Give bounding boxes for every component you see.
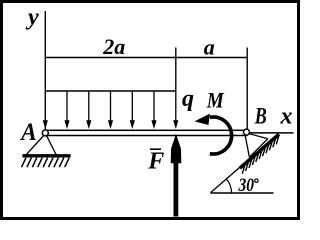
force F arrow: [171, 134, 182, 217]
pin B circle: [244, 129, 250, 135]
support A base bar: [22, 154, 70, 157]
svg-text:30: 30: [238, 175, 255, 196]
label 30 degrees: [238, 175, 258, 196]
incline surface thick segment: [240, 134, 279, 168]
dimension tick above B: [246, 48, 248, 130]
load arrow 4: [108, 91, 113, 129]
load arrow 7: [173, 91, 178, 129]
load arrow 1: [43, 120, 48, 129]
svg-text:y: y: [25, 5, 39, 31]
load arrow 2: [64, 91, 69, 129]
angle arc: [226, 179, 231, 193]
label F with overbar: [147, 148, 164, 174]
support A triangle: [25, 135, 57, 156]
load arrow 5: [130, 91, 135, 129]
svg-text:M: M: [206, 88, 225, 113]
load arrow 3: [86, 91, 91, 129]
incline surface thin segment: [211, 165, 244, 193]
dimension tick at load end: [175, 48, 177, 92]
svg-text:F: F: [147, 148, 164, 174]
support B triangle: [245, 134, 268, 158]
y-axis: [44, 11, 46, 130]
distributed load top line: [45, 90, 176, 92]
svg-text:A: A: [19, 119, 36, 146]
dimension line: [45, 57, 247, 59]
load arrow 6: [151, 91, 156, 129]
x-axis: [247, 132, 294, 134]
pin A circle: [42, 130, 48, 136]
svg-text:q: q: [182, 86, 194, 112]
beam: [45, 130, 246, 135]
svg-text:x: x: [280, 104, 293, 130]
hatching A: [22, 158, 70, 168]
svg-text:B: B: [254, 104, 267, 129]
svg-text:a: a: [204, 35, 215, 60]
hatching B: [242, 135, 279, 174]
svg-text:2a: 2a: [102, 34, 125, 59]
moment arrow M: [195, 114, 232, 154]
angle baseline: [211, 192, 274, 194]
